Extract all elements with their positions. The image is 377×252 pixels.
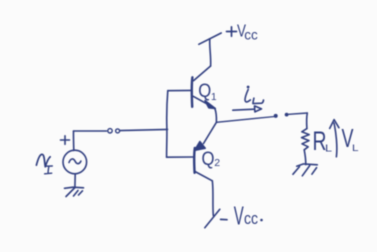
- wire input node to Q1 base: [168, 89, 192, 91]
- label iL: [245, 86, 264, 104]
- transistor Q2: [194, 122, 216, 181]
- wire output node to load: [216, 117, 273, 123]
- wire source bottom: [74, 174, 76, 188]
- svg-text:1: 1: [211, 92, 217, 103]
- -Vcc supply terminal tick: [205, 209, 220, 228]
- label -Vcc: [221, 202, 263, 230]
- arrow iL: [233, 106, 262, 112]
- terminal ring 1: [108, 129, 112, 133]
- junction dot 2: [285, 113, 289, 117]
- svg-text:2: 2: [214, 157, 220, 169]
- wire input vertical: [167, 91, 168, 158]
- wire terminals to input node: [120, 129, 168, 130]
- ground (left): [65, 187, 84, 196]
- arrow VL: [330, 120, 339, 157]
- wire input node to Q2 base: [167, 156, 193, 158]
- svg-text:L: L: [325, 144, 333, 155]
- ground (right): [293, 164, 317, 176]
- plus sign: [61, 136, 70, 145]
- label Q1: [198, 80, 217, 103]
- transistor Q1: [192, 66, 215, 109]
- label +Vcc: [227, 20, 258, 42]
- junction dot 1: [274, 114, 278, 118]
- wire source top: [72, 131, 74, 150]
- svg-text:cc: cc: [244, 209, 258, 228]
- wire source to terminals: [74, 130, 107, 132]
- sine symbol: [69, 159, 81, 164]
- label Q2: [202, 148, 221, 170]
- svg-text:Q: Q: [202, 148, 215, 170]
- wire dots to RL corner: [289, 113, 308, 114]
- resistor RL: [302, 129, 310, 150]
- svg-text:Q: Q: [198, 80, 211, 102]
- wire +Vcc to Q1 collector: [210, 39, 211, 66]
- wire Q2 collector to -Vcc: [212, 181, 213, 216]
- +Vcc supply terminal tick: [199, 33, 221, 44]
- svg-text:cc: cc: [244, 26, 257, 42]
- svg-text:V: V: [234, 202, 244, 230]
- label RL: [313, 126, 333, 156]
- label Vi: [36, 154, 52, 173]
- wire RL bottom: [304, 150, 306, 165]
- source Vi circle: [63, 150, 87, 174]
- wire RL top: [306, 113, 309, 129]
- label VL: [342, 123, 359, 154]
- wire Q1 emitter to output node: [215, 108, 217, 122]
- svg-text:L: L: [352, 143, 359, 154]
- terminal ring 2: [116, 129, 120, 133]
